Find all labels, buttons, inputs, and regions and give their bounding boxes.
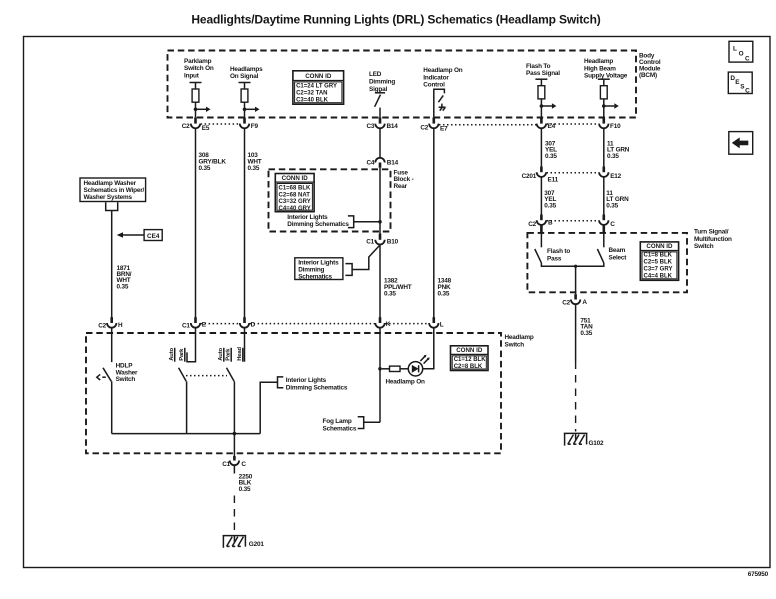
svg-text:Headlamp On: Headlamp On [386, 378, 425, 385]
Interior Lights Dimming Schematics box [295, 258, 352, 281]
wire E11 to B [540, 177, 542, 215]
svg-text:CONN ID: CONN ID [282, 175, 309, 182]
connector pin E12 [599, 166, 622, 180]
junction dot (fuse block) [378, 220, 382, 224]
LOC icon box [729, 41, 753, 62]
svg-text:C1=8 BLK: C1=8 BLK [644, 253, 673, 259]
svg-text:L: L [440, 321, 444, 328]
wire label 751 TAN [580, 317, 593, 336]
svg-text:F9: F9 [251, 123, 259, 130]
BCM dashed box [168, 51, 637, 118]
svg-text:0.35: 0.35 [239, 486, 251, 493]
svg-text:Dimming Schematics: Dimming Schematics [287, 221, 349, 228]
headlamp switch blade (left) [179, 368, 187, 382]
svg-text:K: K [386, 321, 391, 328]
Headlamp High Beam Supply Voltage label [584, 58, 628, 80]
svg-text:Park: Park [226, 348, 232, 361]
dashed wire to G201 [233, 496, 235, 534]
svg-text:Turn Signal/: Turn Signal/ [694, 229, 729, 236]
BCM LED dimming switch symbol [375, 90, 386, 117]
wire E elbow to park post [187, 328, 196, 362]
connector C3 pin B14 [366, 117, 398, 130]
Headlamp Washer Schematics reference box [80, 178, 146, 202]
HDLP washer contact arrow [97, 374, 106, 380]
svg-text:A: A [582, 299, 587, 306]
svg-text:C1: C1 [222, 461, 230, 468]
svg-text:H: H [118, 322, 123, 329]
connector pin F10 [599, 117, 621, 130]
wire C into switch [602, 225, 605, 232]
Headlamp On Indicator Control label [423, 67, 462, 89]
svg-text:0.35: 0.35 [248, 165, 260, 172]
wire C1/C stub [233, 466, 235, 474]
svg-text:Head: Head [237, 347, 243, 361]
svg-text:On Signal: On Signal [230, 73, 259, 80]
wire E12 to C [603, 177, 605, 215]
connector pin K [375, 317, 391, 328]
svg-text:Input: Input [184, 72, 200, 79]
svg-text:C4: C4 [366, 159, 374, 166]
BCM headlamp-on driver [239, 83, 260, 118]
flash-to-pass switch blade [535, 249, 542, 263]
HDLP washer switch blade [103, 368, 111, 382]
svg-text:Switch: Switch [505, 341, 525, 348]
svg-text:C2: C2 [420, 124, 428, 131]
svg-text:C: C [241, 461, 246, 468]
svg-text:E7: E7 [440, 125, 448, 132]
wire label 307 YEL (upper) [545, 140, 557, 159]
BCM flash-to-pass driver [535, 79, 556, 117]
wire E4 to E11 [540, 128, 542, 166]
svg-text:C2: C2 [528, 221, 536, 228]
svg-text:C: C [610, 221, 615, 228]
wire label 307 YEL (lower) [544, 190, 556, 209]
svg-text:Interior Lights: Interior Lights [286, 377, 327, 384]
wire label 103 WHT [248, 152, 262, 172]
washer box exit bracket [106, 202, 118, 210]
DESC icon box [728, 72, 752, 94]
connector pin E4 [537, 117, 556, 130]
connector pin L [429, 317, 444, 328]
wire label 11 LT GRN (upper) [607, 140, 630, 159]
svg-text:CE4: CE4 [147, 233, 160, 240]
svg-text:C2: C2 [98, 323, 106, 330]
svg-text:C2=68 NAT: C2=68 NAT [279, 192, 311, 198]
fuse block dashed box [269, 169, 391, 231]
dotted link E4-F10 [547, 123, 599, 125]
connector pin D [240, 317, 256, 328]
HDLP washer switch wire [111, 328, 113, 362]
svg-text:High Beam: High Beam [584, 65, 616, 72]
svg-text:Schematics: Schematics [298, 274, 332, 281]
svg-text:Washer Systems: Washer Systems [84, 194, 133, 201]
svg-text:0.35: 0.35 [545, 153, 557, 160]
svg-text:C201: C201 [522, 173, 537, 180]
LED Dimming Signal label [369, 71, 395, 93]
Headlamp Switch label [505, 334, 534, 348]
switch output wire [541, 263, 603, 266]
connector C2 pin B [528, 215, 553, 229]
wire label 1871 BRN/WHT [117, 265, 132, 291]
svg-text:C2=32 TAN: C2=32 TAN [296, 90, 327, 96]
svg-text:C: C [745, 88, 750, 95]
svg-text:C1=68 BLK: C1=68 BLK [279, 186, 312, 192]
Headlamps On Signal label [230, 66, 263, 80]
dotted link E-D [201, 323, 240, 325]
svg-text:Dimming: Dimming [298, 267, 324, 274]
wire blade to C1/C [233, 381, 235, 456]
svg-text:Park: Park [179, 348, 185, 361]
svg-text:Switch On: Switch On [184, 65, 214, 72]
wire dimming branch [260, 382, 277, 433]
svg-text:F10: F10 [610, 123, 621, 130]
headlamp switch position posts (right gang) [218, 347, 243, 362]
svg-text:Parklamp: Parklamp [184, 58, 212, 65]
headlamp switch blade (right) [227, 368, 235, 382]
svg-text:Auto: Auto [218, 348, 224, 361]
svg-text:Flash to: Flash to [547, 248, 570, 255]
svg-text:Select: Select [609, 254, 628, 261]
svg-text:Pass: Pass [547, 256, 562, 263]
svg-text:B14: B14 [387, 159, 399, 166]
connector pin C [599, 215, 615, 229]
svg-text:0.35: 0.35 [438, 290, 450, 297]
BCM high-beam driver [598, 79, 619, 117]
indicator resistor [382, 366, 409, 371]
svg-text:Auto: Auto [169, 348, 175, 361]
wire B14 to fuse block [379, 128, 381, 157]
svg-text:Switch: Switch [116, 376, 136, 383]
connector C2 pin E7 [420, 117, 448, 132]
svg-text:0.35: 0.35 [384, 290, 396, 297]
svg-text:Headlamp: Headlamp [584, 58, 613, 65]
turn signal multifunction switch dashed box [527, 233, 687, 292]
wire B10 to K [379, 245, 381, 318]
CONN ID box (fuse block) [275, 174, 314, 212]
svg-text:Multifunction: Multifunction [694, 236, 732, 243]
Beam Select label [609, 247, 628, 261]
dashed wire to G102 [575, 362, 577, 432]
svg-text:C3=40 BLK: C3=40 BLK [296, 97, 329, 103]
BCM parklamp driver [190, 83, 211, 118]
ground G102 [564, 433, 604, 446]
svg-text:B14: B14 [387, 123, 399, 130]
switch common bus [112, 433, 261, 435]
connector C4 pin B14 (fuse block entry) [366, 158, 398, 168]
Fog Lamp Schematics reference [323, 417, 381, 433]
headlamp-on indicator LED [408, 355, 429, 376]
ground G201 [223, 536, 265, 549]
wire washer-to-H [111, 211, 113, 319]
svg-text:O: O [739, 51, 744, 58]
wire F9 to D [244, 128, 246, 318]
svg-text:B10: B10 [387, 239, 399, 246]
svg-text:Headlamp On: Headlamp On [423, 67, 462, 74]
svg-text:E11: E11 [548, 177, 559, 184]
svg-text:Pass Signal: Pass Signal [526, 70, 560, 77]
connector C1 pin B10 (fuse block exit) [366, 234, 398, 246]
svg-text:C2=8 BLK: C2=8 BLK [454, 364, 483, 370]
svg-text:Dimming: Dimming [369, 79, 395, 86]
Fuse Block - Rear label [394, 170, 414, 190]
svg-text:Interior Lights: Interior Lights [298, 260, 339, 267]
connector C1 pin C [222, 456, 246, 468]
svg-text:G201: G201 [249, 541, 265, 548]
CONN ID box (headlamp switch) [451, 346, 489, 371]
CONN ID box (turn signal switch) [640, 242, 678, 280]
BCM label [639, 52, 661, 79]
Interior Lights Dimming Schematics (fuse block) [287, 214, 380, 228]
svg-text:LED: LED [369, 71, 382, 78]
wire label 1382 PPL/WHT [384, 277, 412, 297]
svg-text:C4=40 GRY: C4=40 GRY [279, 206, 311, 212]
headlamp switch dashed box [86, 333, 501, 453]
Flash to Pass label [547, 248, 570, 262]
wire label 2250 BLK [239, 473, 253, 492]
wire washer blade to bus [111, 381, 113, 433]
svg-text:Headlamp Washer: Headlamp Washer [84, 180, 137, 187]
wire label 308 GRY/BLK [199, 152, 227, 172]
svg-text:0.35: 0.35 [580, 330, 592, 337]
svg-text:Dimming Schematics: Dimming Schematics [286, 384, 348, 391]
svg-text:Headlamps: Headlamps [230, 66, 263, 73]
svg-text:C1: C1 [182, 323, 190, 330]
wire F10 to E12 [603, 128, 605, 166]
headlamp switch position posts (left gang) [169, 348, 185, 362]
svg-text:C2=5 BLK: C2=5 BLK [644, 260, 673, 266]
svg-text:0.35: 0.35 [117, 283, 129, 290]
beam select switch blade [597, 249, 603, 263]
connector C201 pin E11 [522, 166, 559, 183]
svg-text:Schematics: Schematics [323, 425, 357, 432]
HDLP Washer Switch label [116, 363, 138, 383]
svg-text:0.35: 0.35 [606, 202, 618, 209]
dotted link K-L [385, 323, 429, 325]
dotted link E7-E4 [439, 124, 536, 126]
svg-text:Indicator: Indicator [423, 74, 449, 81]
svg-text:C1=24 LT GRY: C1=24 LT GRY [296, 84, 337, 90]
wire A down [575, 304, 577, 361]
connector C2 pin H [98, 317, 123, 329]
CE4 reference arrow [117, 230, 163, 241]
wire B into switch [540, 225, 543, 232]
branch to interior lights dimming (boxed) [352, 245, 380, 269]
svg-text:C4=4 BLK: C4=4 BLK [644, 274, 673, 280]
svg-text:D: D [251, 321, 256, 328]
wire label 11 LT GRN (lower) [606, 190, 629, 209]
svg-text:Interior Lights: Interior Lights [287, 214, 328, 221]
svg-text:C3=32 GRY: C3=32 GRY [279, 199, 311, 205]
svg-text:(BCM): (BCM) [639, 72, 657, 79]
svg-text:Control: Control [423, 82, 445, 89]
svg-text:0.35: 0.35 [607, 153, 619, 160]
svg-text:C2: C2 [182, 123, 190, 130]
dotted link E5-F9 [201, 123, 240, 125]
wire blade to bus [186, 381, 188, 433]
svg-text:Switch: Switch [694, 243, 714, 250]
svg-text:Headlights/Daytime Running Lig: Headlights/Daytime Running Lights (DRL) … [191, 12, 600, 26]
svg-text:C3=7 GRY: C3=7 GRY [644, 267, 673, 273]
svg-text:E12: E12 [610, 173, 621, 180]
svg-text:C2: C2 [562, 299, 570, 306]
CONN ID box (BCM) [293, 71, 344, 104]
dotted link B-C [547, 220, 599, 222]
dotted link D-K [250, 323, 375, 325]
svg-text:G102: G102 [589, 440, 605, 447]
svg-text:Headlamp: Headlamp [505, 334, 534, 341]
svg-text:Flash To: Flash To [526, 63, 551, 70]
connector C2 pin A [562, 294, 587, 306]
connector pin F9 [240, 117, 259, 130]
wire D to head post [244, 328, 246, 362]
svg-text:C1=12 BLK: C1=12 BLK [454, 357, 487, 363]
svg-text:CONN ID: CONN ID [646, 243, 673, 250]
BCM indicator driver symbol [434, 89, 446, 117]
svg-text:0.35: 0.35 [199, 165, 211, 172]
svg-text:Rear: Rear [394, 183, 408, 190]
svg-text:Signal: Signal [369, 86, 387, 93]
svg-text:CONN ID: CONN ID [305, 73, 332, 80]
wire E5 to E [195, 128, 197, 318]
svg-text:C1: C1 [366, 239, 374, 246]
svg-text:C: C [745, 55, 750, 62]
svg-text:L: L [733, 46, 737, 53]
svg-text:E5: E5 [202, 125, 210, 132]
svg-text:Fog Lamp: Fog Lamp [323, 418, 352, 425]
connector C2 pin E5 [182, 117, 210, 132]
Parklamp Switch On Input label [184, 58, 214, 80]
wire inside fuse block [379, 168, 381, 236]
connector C1 pin E [182, 317, 207, 329]
svg-text:C3: C3 [366, 123, 374, 130]
dotted link E11-E12 [547, 172, 599, 174]
wire L to LED [423, 328, 434, 369]
svg-text:Beam: Beam [609, 247, 626, 254]
Turn Signal/Multifunction Switch label [694, 229, 732, 250]
gang link dotted [186, 375, 227, 377]
back-arrow icon box [729, 132, 753, 155]
Flash To Pass Signal label [526, 63, 560, 77]
wire E7 to L [433, 128, 435, 318]
Interior Lights Dimming Schematics (headlamp switch) [278, 377, 348, 392]
svg-text:Schematics in Wiper/: Schematics in Wiper/ [84, 187, 145, 194]
svg-text:0.35: 0.35 [544, 202, 556, 209]
wire K to LED junction [379, 328, 381, 422]
svg-text:CONN ID: CONN ID [456, 347, 483, 354]
wire label 1348 PNK [438, 277, 452, 297]
svg-text:675950: 675950 [748, 571, 769, 578]
